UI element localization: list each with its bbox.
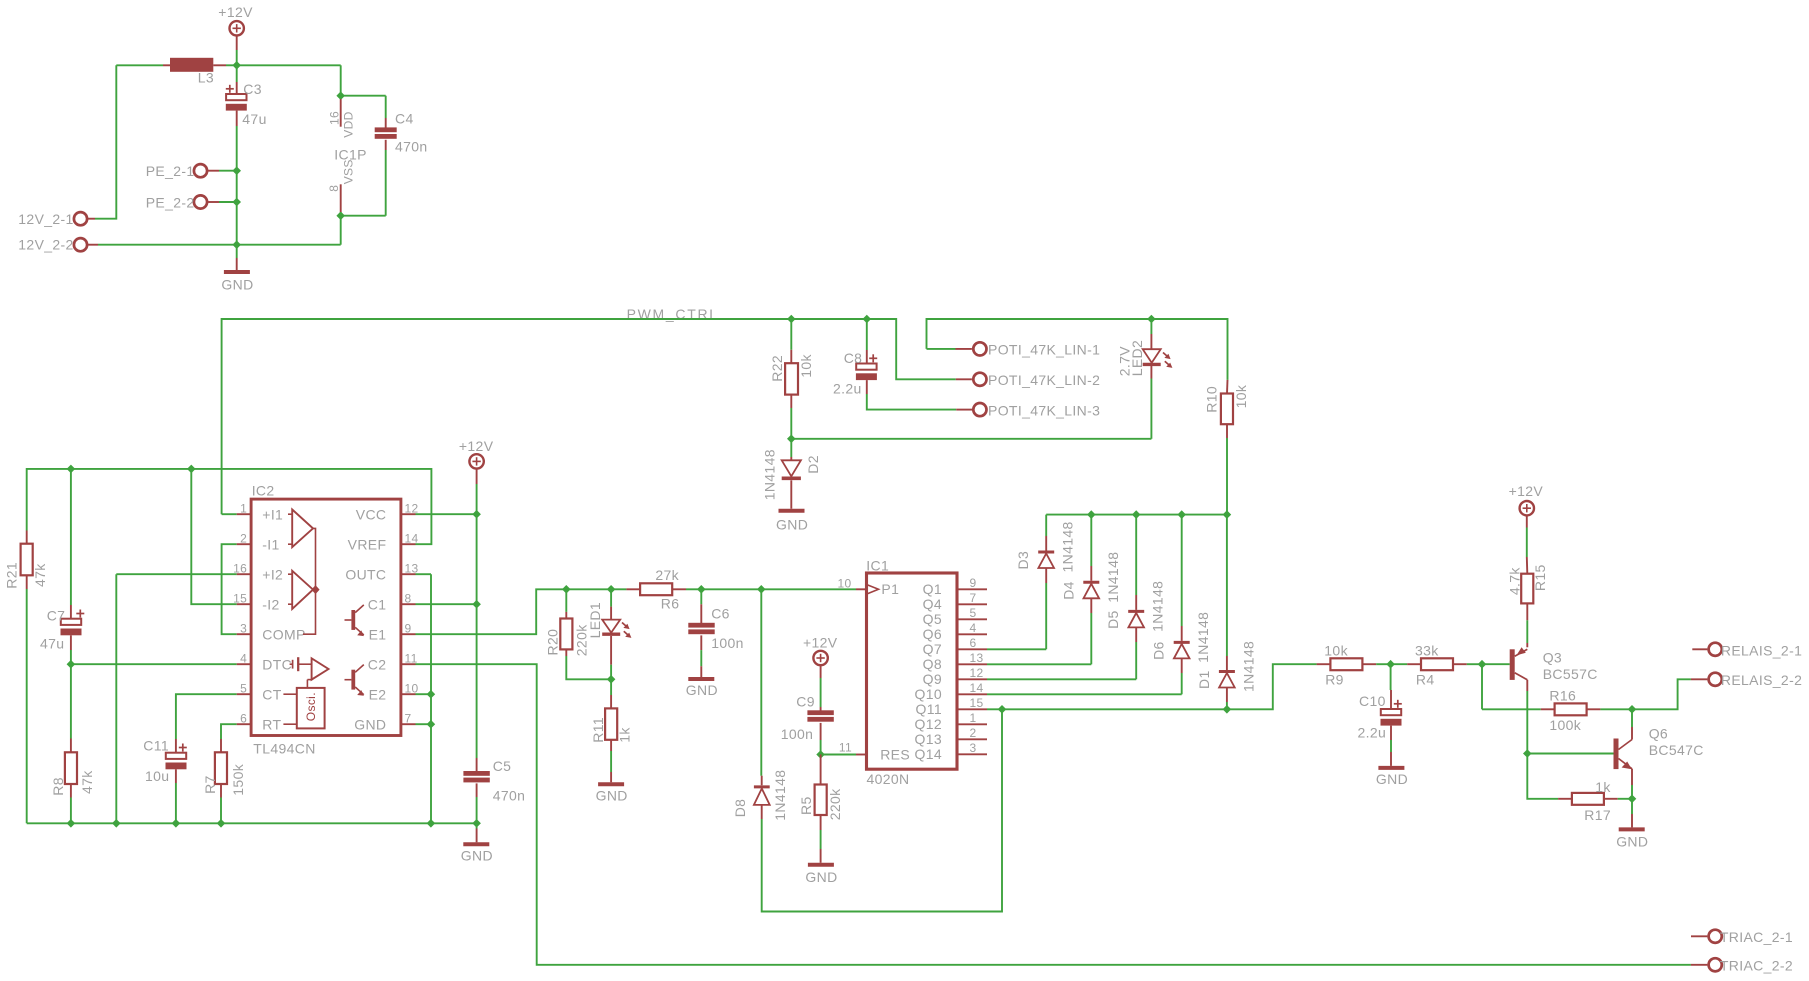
svg-text:RELAIS_2-2: RELAIS_2-2: [1721, 672, 1802, 688]
power +12V (R15): [1509, 483, 1544, 528]
IC1 pin 5 Q5: [923, 606, 987, 627]
svg-text:2: 2: [240, 532, 247, 546]
capacitor C6 100n: [688, 589, 743, 666]
svg-text:1: 1: [970, 711, 977, 725]
IC1 pin 11 RES: [839, 740, 910, 762]
svg-text:R21: R21: [4, 562, 20, 589]
svg-text:5: 5: [970, 606, 977, 620]
svg-text:GND: GND: [1616, 834, 1648, 850]
IC2 error amp 2: [288, 571, 313, 609]
node junction: [232, 240, 241, 249]
IC2 pin 7 GND: [354, 712, 415, 733]
node junction: [607, 675, 616, 684]
svg-text:220k: 220k: [827, 788, 843, 820]
svg-text:GND: GND: [1376, 771, 1408, 787]
wire: [1390, 664, 1392, 690]
ground GND (R5): [805, 849, 837, 885]
IC1 pin 2 Q13: [914, 726, 987, 747]
diode D3 1N4148: [1015, 521, 1076, 583]
svg-text:C8: C8: [844, 350, 863, 366]
svg-text:COMP: COMP: [262, 626, 305, 642]
svg-text:P1: P1: [881, 581, 899, 597]
svg-text:33k: 33k: [1415, 642, 1439, 658]
pad 12V_2-2: [18, 237, 98, 253]
wire: [340, 216, 342, 245]
svg-text:1N4148: 1N4148: [762, 449, 778, 500]
svg-text:GND: GND: [461, 848, 493, 864]
svg-text:Q13: Q13: [914, 731, 942, 747]
svg-text:R8: R8: [50, 777, 66, 796]
svg-text:R15: R15: [1532, 564, 1548, 591]
node junction: [187, 465, 196, 474]
node junction: [427, 690, 436, 699]
node junction: [472, 600, 481, 609]
IC2 pin 5 CT: [237, 682, 282, 703]
pad POTI_47K_LIN-3: [956, 402, 1100, 418]
svg-text:Q6: Q6: [923, 626, 942, 642]
node junction: [232, 198, 241, 207]
wire E1 net: [416, 589, 567, 634]
svg-text:R10: R10: [1203, 386, 1219, 413]
svg-text:8: 8: [405, 592, 412, 606]
wire -I2 net: [191, 469, 236, 604]
ground GND (R11): [596, 772, 628, 804]
svg-text:GND: GND: [596, 788, 628, 804]
wire: [416, 693, 431, 695]
svg-text:BC547C: BC547C: [1649, 742, 1704, 758]
IC2 pin 13 OUTC: [345, 562, 418, 583]
svg-text:C3: C3: [243, 81, 262, 97]
resistor R8 47k: [50, 739, 95, 824]
IC2 error amp 1: [288, 510, 313, 548]
node junction: [787, 435, 796, 444]
svg-text:+12V: +12V: [803, 634, 838, 650]
wire: [1391, 663, 1408, 665]
resistor R7 150k: [202, 739, 246, 823]
wire: [237, 244, 341, 246]
svg-text:Q5: Q5: [923, 611, 942, 627]
wire: [1527, 754, 1558, 799]
wire RT net: [221, 724, 237, 739]
pad PE_2-2: [146, 195, 237, 211]
wire: [1151, 319, 1227, 380]
node junction: [1628, 705, 1637, 714]
wire: [1600, 708, 1632, 710]
transistor Q3 BC557C: [1510, 643, 1598, 691]
IC1 pin 4 Q6: [923, 621, 987, 642]
svg-text:VDD: VDD: [342, 111, 356, 137]
wire: [1045, 515, 1047, 536]
svg-text:C10: C10: [1359, 693, 1386, 709]
svg-text:2: 2: [970, 726, 977, 740]
resistor R20 220k: [544, 589, 611, 679]
node junction: [863, 315, 872, 324]
ground GND (C6): [686, 666, 718, 698]
svg-text:1N4148: 1N4148: [1240, 641, 1256, 692]
svg-text:C2: C2: [368, 656, 387, 672]
svg-text:R6: R6: [661, 596, 680, 612]
wire: [1181, 515, 1183, 626]
svg-text:47u: 47u: [40, 636, 64, 652]
transistor Q6 BC547C: [1614, 709, 1704, 799]
capacitor C7 47u: [40, 605, 84, 652]
wire: [927, 319, 1152, 349]
svg-text:100n: 100n: [711, 635, 744, 651]
wire Q11 net: [987, 708, 1002, 710]
svg-text:15: 15: [233, 592, 247, 606]
svg-text:IC1P: IC1P: [334, 146, 367, 162]
svg-text:Q11: Q11: [916, 701, 942, 717]
ground GND (C10): [1376, 752, 1408, 787]
wire: [95, 65, 116, 218]
node junction: [757, 585, 766, 594]
svg-text:GND: GND: [221, 276, 253, 292]
resistor R16 100k: [1541, 688, 1601, 733]
IC1 pin 10 P1: [837, 577, 899, 597]
svg-text:47k: 47k: [79, 770, 95, 794]
svg-text:12: 12: [970, 666, 984, 680]
node junction: [232, 166, 241, 175]
svg-text:16: 16: [327, 111, 341, 125]
pad RELAIS_2-2: [1691, 672, 1802, 688]
wire C2 net: [416, 664, 1691, 965]
IC2 comp output wire: [303, 528, 320, 634]
IC1 pin 6 Q7: [923, 636, 987, 657]
ground GND (Q6/R17): [1616, 814, 1648, 850]
svg-text:R7: R7: [202, 775, 218, 794]
resistor R6 27k: [626, 567, 686, 612]
svg-text:TRIAC_2-1: TRIAC_2-1: [1720, 929, 1793, 945]
node junction: [1223, 705, 1232, 714]
svg-text:1N4148: 1N4148: [1060, 521, 1076, 572]
svg-text:D2: D2: [805, 455, 821, 474]
svg-text:BC557C: BC557C: [1543, 666, 1598, 682]
wire: [236, 50, 238, 65]
svg-text:C7: C7: [47, 607, 66, 623]
svg-text:LED2: LED2: [1129, 340, 1145, 376]
wire: [1526, 691, 1528, 754]
node junction: [67, 465, 76, 474]
wire Q7 net: [987, 583, 1046, 649]
IC1 pin 15 Q11: [916, 696, 987, 717]
svg-text:1N4148: 1N4148: [772, 770, 788, 821]
svg-text:OUTC: OUTC: [345, 566, 386, 582]
wire: [226, 64, 237, 66]
svg-text:4.7k: 4.7k: [1506, 567, 1522, 596]
svg-text:4020N: 4020N: [867, 771, 910, 787]
svg-text:100k: 100k: [1549, 717, 1581, 733]
wire: [340, 65, 342, 95]
svg-text:IC2: IC2: [252, 482, 275, 498]
diode D8 1N4148: [732, 770, 788, 821]
svg-text:R4: R4: [1416, 672, 1435, 688]
node junction: [1223, 510, 1232, 519]
resistor R15 4.7k: [1506, 557, 1548, 620]
svg-text:R9: R9: [1325, 672, 1344, 688]
svg-text:C6: C6: [711, 605, 730, 621]
node junction: [1132, 510, 1141, 519]
svg-text:Q10: Q10: [914, 686, 942, 702]
wire: [927, 348, 956, 350]
IC1 pin 7 Q4: [923, 591, 987, 612]
svg-text:Q12: Q12: [914, 716, 942, 732]
svg-text:TRIAC_2-2: TRIAC_2-2: [1720, 957, 1793, 973]
svg-text:R22: R22: [769, 355, 785, 382]
svg-text:D1: D1: [1196, 670, 1212, 689]
svg-text:3: 3: [970, 741, 977, 755]
svg-text:C5: C5: [493, 758, 512, 774]
svg-text:IC1: IC1: [866, 558, 889, 574]
svg-text:4: 4: [240, 652, 247, 666]
svg-text:DTC: DTC: [262, 656, 292, 672]
LED LED2 2.7V: [1116, 319, 1172, 439]
svg-text:1N4148: 1N4148: [1150, 581, 1166, 632]
IC1 pin 13 Q8: [923, 651, 987, 672]
wire: [867, 394, 956, 410]
svg-text:1N4148: 1N4148: [1195, 612, 1211, 663]
svg-text:14: 14: [970, 681, 984, 695]
svg-text:10u: 10u: [145, 768, 169, 784]
wire: [1618, 798, 1632, 800]
node junction: [1628, 795, 1637, 804]
wire +I2 net: [116, 574, 236, 823]
wire OUTC/E2/GND net: [416, 574, 432, 823]
wire: [236, 65, 238, 82]
svg-text:10k: 10k: [1324, 642, 1348, 658]
IC2 pin 6 RT: [237, 712, 282, 733]
resistor R5 220k: [798, 755, 843, 850]
IC2 pin 11 C2: [368, 652, 418, 673]
IC2 pin 3 COMP: [237, 622, 306, 643]
node junction: [172, 819, 181, 828]
IC2 pin 2 -I1: [237, 532, 280, 553]
IC1P pin VSS (8): [327, 159, 356, 215]
node junction: [472, 819, 481, 828]
inductor L3: [163, 58, 226, 86]
svg-text:R17: R17: [1584, 807, 1611, 823]
wire: [1390, 740, 1392, 752]
wire: [1467, 663, 1482, 665]
svg-text:14: 14: [405, 532, 419, 546]
capacitor C11 10u: [143, 738, 187, 824]
wire: [70, 664, 72, 738]
ground GND (main): [221, 258, 253, 292]
svg-text:5: 5: [240, 682, 247, 696]
wire: [476, 484, 478, 514]
node junction: [472, 510, 481, 519]
svg-text:TL494CN: TL494CN: [253, 741, 315, 757]
wire: [116, 64, 163, 66]
wire: [236, 126, 238, 258]
wire: [1482, 663, 1510, 665]
resistor R4 33k: [1407, 642, 1467, 687]
wire: [476, 797, 478, 829]
IC1 pin 3 Q14: [914, 741, 987, 762]
svg-text:Q8: Q8: [923, 656, 942, 672]
svg-text:VSS: VSS: [342, 159, 356, 184]
svg-text:+12V: +12V: [1509, 483, 1544, 499]
svg-text:10: 10: [837, 577, 851, 591]
svg-text:C1: C1: [368, 596, 387, 612]
pad POTI_47K_LIN-1: [956, 342, 1101, 358]
svg-text:+I2: +I2: [262, 566, 283, 582]
node junction: [816, 750, 825, 759]
wire: [70, 650, 72, 664]
capacitor C3: [226, 81, 267, 127]
svg-text:12V_2-1: 12V_2-1: [18, 211, 73, 227]
wire ground rail: [27, 822, 477, 824]
svg-text:RT: RT: [262, 716, 281, 732]
node junction: [427, 819, 436, 828]
node junction: [67, 819, 76, 828]
resistor R17 1k: [1558, 779, 1618, 823]
wire diode rail: [1046, 514, 1227, 516]
IC1 pin 12 Q9: [923, 666, 987, 687]
svg-text:E2: E2: [369, 686, 387, 702]
svg-text:47k: 47k: [32, 563, 48, 587]
svg-text:Q9: Q9: [923, 671, 942, 687]
IC2 internal transistor C1/E1: [345, 605, 364, 636]
wire: [416, 723, 431, 725]
IC2 pin 9 E1: [369, 622, 416, 643]
svg-text:R16: R16: [1549, 688, 1576, 704]
svg-text:E1: E1: [369, 626, 387, 642]
pad RELAIS_2-1: [1692, 642, 1802, 658]
wire: [686, 588, 701, 590]
pad TRIAC_2-1: [1691, 929, 1793, 945]
svg-text:1k: 1k: [616, 727, 632, 743]
svg-text:D6: D6: [1151, 641, 1167, 660]
wire CT net: [176, 694, 237, 739]
svg-text:POTI_47K_LIN-1: POTI_47K_LIN-1: [988, 342, 1100, 358]
wire: [1632, 679, 1691, 709]
IC2 pin 16 +I2: [233, 562, 283, 583]
svg-text:R5: R5: [798, 796, 814, 815]
wire VREF net: [27, 469, 432, 544]
resistor R11 1k: [590, 679, 632, 772]
node junction: [1386, 660, 1395, 669]
wire: [760, 589, 762, 775]
svg-text:LED1: LED1: [587, 602, 603, 638]
svg-text:2.2u: 2.2u: [1358, 725, 1387, 741]
node junction: [67, 660, 76, 669]
svg-text:C9: C9: [796, 694, 815, 710]
resistor R21 47k: [4, 531, 48, 824]
svg-text:VREF: VREF: [348, 536, 387, 552]
svg-text:6: 6: [240, 712, 247, 726]
diode D2 1N4148: [762, 439, 822, 501]
diode D4 1N4148: [1060, 552, 1121, 613]
wire: [385, 96, 387, 128]
wire: [222, 513, 237, 515]
svg-text:L3: L3: [198, 69, 214, 85]
svg-text:GND: GND: [805, 869, 837, 885]
wire: [1526, 528, 1528, 558]
LED LED1: [587, 589, 631, 679]
wire: [701, 588, 761, 590]
pad TRIAC_2-2: [1691, 957, 1793, 973]
wire: [791, 318, 867, 320]
IC2 pin 14 VREF: [348, 532, 419, 553]
svg-text:Q4: Q4: [923, 596, 942, 612]
svg-text:13: 13: [970, 651, 984, 665]
node junction: [427, 720, 436, 729]
node junction: [697, 585, 706, 594]
svg-text:-I2: -I2: [262, 596, 279, 612]
svg-text:7: 7: [405, 712, 412, 726]
wire: [1090, 515, 1092, 566]
node junction: [112, 819, 121, 828]
capacitor C8: [833, 319, 877, 396]
svg-text:3: 3: [240, 622, 247, 636]
svg-text:C4: C4: [395, 110, 414, 126]
pad 12V_2-1: [18, 211, 95, 227]
svg-text:6: 6: [970, 636, 977, 650]
svg-text:R20: R20: [544, 629, 560, 656]
wire: [98, 244, 237, 246]
IC2 oscillator box Osci.: [283, 688, 324, 729]
capacitor C4: [375, 110, 428, 154]
svg-text:GND: GND: [776, 517, 808, 533]
wire: [867, 319, 956, 379]
wire: [1631, 799, 1633, 814]
svg-text:-I1: -I1: [262, 536, 279, 552]
svg-text:C11: C11: [143, 738, 169, 754]
IC2 pin 1 +I1: [237, 502, 284, 523]
svg-text:R11: R11: [590, 717, 606, 743]
wire: [70, 469, 72, 605]
svg-text:POTI_47K_LIN-3: POTI_47K_LIN-3: [988, 402, 1100, 418]
wire: [761, 588, 856, 590]
pad PE_2-1: [146, 163, 237, 179]
ground GND (C5): [461, 829, 493, 864]
svg-text:D8: D8: [732, 799, 748, 818]
svg-text:16: 16: [233, 562, 247, 576]
svg-text:7: 7: [970, 591, 977, 605]
svg-text:9: 9: [970, 576, 977, 590]
node junction: [336, 91, 345, 100]
svg-text:+12V: +12V: [218, 4, 253, 20]
wire: [476, 604, 478, 758]
wire: [820, 678, 822, 707]
wire Q8 net: [987, 613, 1091, 664]
svg-text:Q1: Q1: [923, 581, 942, 597]
pad POTI_47K_LIN-2: [956, 372, 1100, 388]
IC2 pin 4 DTC: [237, 652, 292, 673]
wire: [1527, 753, 1613, 755]
node junction: [1523, 749, 1532, 758]
svg-text:9: 9: [405, 622, 412, 636]
diode D5 1N4148: [1105, 581, 1166, 642]
svg-text:470n: 470n: [493, 788, 526, 804]
IC2 pin 10 E2: [369, 682, 419, 703]
wire: [1135, 515, 1137, 595]
wire -I1/COMP net: [222, 544, 237, 634]
svg-text:D3: D3: [1015, 551, 1031, 570]
IC IC2 TL494CN box: [251, 482, 401, 756]
wire: [385, 150, 387, 216]
ground GND (D2): [776, 497, 808, 533]
IC1P pin VDD (16): [327, 99, 355, 138]
svg-text:470n: 470n: [395, 139, 428, 155]
svg-text:150k: 150k: [230, 763, 246, 795]
svg-text:PE_2-1: PE_2-1: [146, 163, 195, 179]
svg-text:Q3: Q3: [1543, 650, 1562, 666]
wire: [1002, 708, 1227, 710]
wire: [611, 588, 626, 590]
IC1 pin 9 Q1: [923, 576, 987, 597]
node junction: [217, 819, 226, 828]
